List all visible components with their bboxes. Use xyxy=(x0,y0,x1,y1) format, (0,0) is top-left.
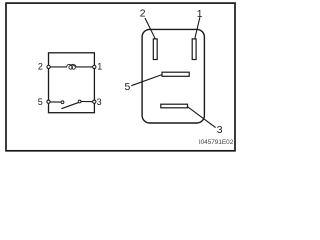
svg-text:3: 3 xyxy=(217,125,223,136)
svg-text:5: 5 xyxy=(38,97,43,107)
terminal slot 1 xyxy=(192,39,196,60)
terminal 1 xyxy=(93,65,96,68)
wire coil row left xyxy=(49,66,67,68)
wire switch row right xyxy=(81,101,94,103)
coil L xyxy=(67,64,77,69)
leader 2 xyxy=(145,18,155,39)
terminal 5 xyxy=(47,100,50,103)
leader 5 xyxy=(131,75,162,86)
relay box (schematic) xyxy=(49,53,95,113)
relay body (connector view) xyxy=(142,29,204,123)
terminal slot 5 xyxy=(162,72,189,76)
switch contact b xyxy=(78,100,81,103)
svg-text:1: 1 xyxy=(197,9,203,20)
wire switch row left xyxy=(49,101,61,103)
terminal slot 2 xyxy=(153,39,157,60)
switch contact a xyxy=(61,101,64,104)
leader 1 xyxy=(195,17,200,39)
leader 3 xyxy=(187,106,216,127)
terminal 3 xyxy=(93,100,96,103)
border frame xyxy=(6,3,235,151)
wire coil row right xyxy=(76,66,94,68)
switch blade xyxy=(61,103,78,109)
terminal slot 3 xyxy=(161,104,188,108)
terminal 2 xyxy=(47,65,50,68)
svg-text:1: 1 xyxy=(97,62,102,72)
svg-text:2: 2 xyxy=(38,62,43,72)
svg-text:2: 2 xyxy=(140,9,146,20)
svg-text:5: 5 xyxy=(125,82,131,93)
svg-text:3: 3 xyxy=(97,97,102,107)
svg-text:I045791E02: I045791E02 xyxy=(199,139,234,146)
